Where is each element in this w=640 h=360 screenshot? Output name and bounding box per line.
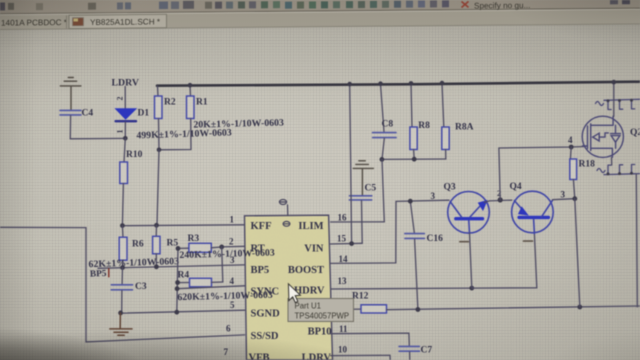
node BP5/R5 (154, 264, 159, 269)
capacitor C3 (111, 268, 147, 313)
wire Q4 to R18 node (553, 199, 575, 200)
wire left feedback loop (0, 227, 245, 342)
node HDRV/Q3 emitter (469, 286, 474, 291)
wire SGND net (pin 5) (120, 310, 245, 313)
diode D1 (116, 109, 150, 137)
wire RT net (pin 2) (222, 245, 245, 248)
wire R2/R1 junction down to KFF net (157, 150, 159, 225)
transistor Q4 (510, 182, 554, 234)
node R12 net / right riser (577, 305, 582, 310)
node SGND/C3 (118, 311, 123, 316)
wire VIN riser to bus (350, 84, 352, 243)
node RT/R3/R4 (219, 245, 224, 250)
inductor L-top (winding above MOSFET) (596, 99, 640, 110)
resistor R8 (410, 83, 430, 159)
node gate/R18 (569, 145, 574, 150)
wire VIN power bus (thick) (157, 82, 640, 86)
resistor R18 (570, 147, 595, 199)
wire source riser to R12 net (636, 174, 637, 307)
resistor R10 (120, 138, 143, 225)
wire C4 to D1 node (70, 137, 125, 139)
wire LDRV net (pin 10) (331, 355, 391, 360)
node R1/R2 bus dot (188, 83, 193, 88)
node bus/R8A (440, 81, 445, 86)
wire BP10 net (pin 11) (331, 333, 410, 346)
capacitor C5 (349, 184, 376, 244)
node R4 left (175, 280, 180, 285)
capacitor C16 (405, 201, 443, 309)
tab band (0, 10, 640, 30)
wire VIN net (pin 15) (331, 242, 363, 245)
toolbar band (0, 0, 640, 14)
wire LDRV to D1 (124, 87, 126, 109)
tooltip Part U1 (288, 299, 354, 322)
pin mark Q4 (524, 240, 533, 242)
inductor L-bot (winding below MOSFET) (597, 165, 640, 176)
resistor R2 (155, 86, 176, 150)
resistor R8A (442, 83, 474, 159)
transistor Q3 (444, 183, 490, 234)
node R18 bottom / Q4 net (572, 196, 577, 201)
node bus/C8 (378, 81, 383, 86)
resistor R4 (178, 270, 223, 287)
capacitor C4 (60, 109, 93, 139)
resistor R6 (119, 226, 144, 268)
ground G3 (above C5) (353, 161, 373, 195)
node SYNC tee (175, 286, 180, 291)
node R12 net / C16 (416, 307, 421, 312)
wire gate riser (499, 147, 585, 200)
wire KFF net (pin 1) (122, 224, 244, 227)
wire Q3/Q4 emitters (472, 234, 537, 289)
wire BOOST net (pin 14) (331, 200, 449, 263)
resistor R5 (153, 225, 179, 266)
wire Q3 to Q4 base link (485, 200, 512, 202)
node R1/R2 bottom junction (157, 148, 162, 153)
wire HDRV net (pin 13) (331, 287, 472, 290)
net label BP5 tail mark (108, 269, 110, 277)
node base link / gate riser (498, 197, 503, 202)
pin mark Q3 (460, 241, 469, 243)
op-amp U1 TPS40057PWP body (245, 215, 333, 360)
resistor R12 (331, 291, 640, 313)
no-ERC marker above U1 (279, 200, 287, 216)
node KFF/R5 (154, 223, 159, 228)
node BP5/R6 (120, 265, 125, 270)
node R3 left (176, 246, 181, 251)
node bus/VIN riser (347, 82, 352, 87)
resistor R3 (178, 234, 222, 252)
node D1/C4/R10 junction (123, 136, 128, 141)
wire bus to winding to MOSFET drain (613, 82, 615, 116)
wire Q3 emitter lead (470, 233, 472, 288)
wire R3/R4 left vertical to SGND (177, 248, 178, 312)
node bus/R8 (409, 81, 414, 86)
wire R4 right lead up to RT (222, 247, 223, 282)
node bus/drain riser (612, 80, 617, 85)
capacitor C7 (399, 346, 432, 360)
capacitor C8 (373, 84, 397, 159)
resistor R1 (159, 85, 208, 150)
ground G2 (SGND) (110, 313, 132, 335)
wire SYNC net (pin 4) (177, 286, 245, 289)
wire MOSFET source to winding (611, 158, 613, 166)
node R8 bottom (412, 157, 417, 162)
node BOOST/C16 (408, 199, 413, 204)
ground G1 (above C4) (60, 78, 81, 110)
node C8 bottom / pin16 (380, 157, 385, 162)
pin marker (bubble) (283, 221, 290, 226)
wire C8/R8/R8A bottoms (382, 158, 446, 160)
node KFF/R10/R6 (120, 223, 125, 228)
node SGND/R3R4 (174, 310, 179, 315)
tab 2 active (69, 14, 167, 28)
wire right riser (R18 node to R12 net) (575, 199, 580, 307)
wire BP5 net (pin 3) (98, 265, 245, 268)
mouse cursor (288, 284, 300, 303)
transistor Q2 (MOSFET) (582, 116, 640, 157)
node VIN/riser (349, 241, 354, 246)
wire ILIM net (pin 16) (331, 160, 385, 223)
